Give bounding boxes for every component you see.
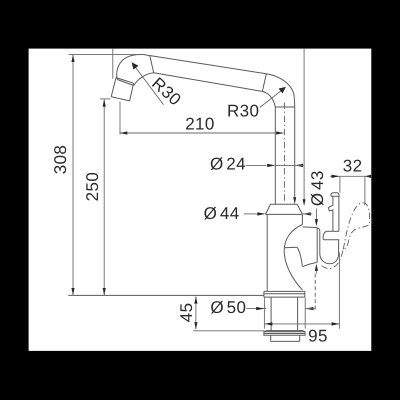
lever bracket top line [326,230,339,232]
right bend tangent tick left [262,74,266,92]
svg-text:Ø 50: Ø 50 [210,298,246,317]
diameter 43 dimension line lower [315,271,317,274]
right bend tangent tick bottom [275,106,294,108]
threaded shank walls [271,297,298,331]
svg-text:45: 45 [177,303,196,323]
body boss silhouette curve [284,225,302,290]
right bend outer arc R30 [266,74,294,107]
diameter 50 arrow left [256,307,264,310]
diameter 24 arrow right [295,164,303,167]
diameter 24 line across pipe [275,164,294,166]
dimension 308 arrow bottom [71,288,74,295]
lever bracket left bulge [323,231,326,239]
content panel [29,49,372,351]
radius R30 left leader [134,65,164,104]
side outlet face [319,231,321,252]
lever rod right edge [338,196,340,231]
spout top tube upper line [143,55,266,74]
counter deck line [68,294,264,296]
svg-text:Ø 43: Ø 43 [308,170,327,206]
lever cap [331,193,339,196]
riser pipe centerline (dash-dot) [283,103,285,202]
diameter 43 arrow up [315,264,318,271]
diameter 50 arrow right [305,307,313,310]
dimension 32 extension left [339,176,341,192]
dimension 32 extension right [364,176,366,205]
diameter 50 leader [246,308,266,310]
dimension 45 line [195,296,197,329]
riser pipe right wall end arrow [293,197,296,204]
dimension 45 extension bottom [193,330,264,332]
svg-text:308: 308 [51,145,70,175]
diameter 50 extension left [263,298,265,329]
body collar [265,204,302,214]
diameter 24 leader [246,164,267,166]
dimension 95 extension right [338,253,340,329]
dimension 32 arrow left [332,175,340,178]
diameter 43 arrow down [315,219,318,226]
dimension 45 arrow top [194,296,197,303]
diameter 44 leader [244,213,257,215]
lever alternate position outline (dash-dot) [343,203,369,249]
spout outlet axis extension line (cut at top) [112,49,114,79]
radius R30 left arrowhead [132,62,139,69]
svg-text:R30: R30 [227,101,259,120]
side outlet face inner line [316,228,318,262]
dimension 95 line [265,323,340,325]
deck mounting flange [264,291,305,297]
diameter 44 arrow left [257,212,265,215]
dimension 250 arrow bottom [103,288,106,295]
dimension 250 extension line top [100,98,111,100]
svg-text:32: 32 [343,156,363,175]
dimension 308 arrow top [71,55,74,62]
spout outlet tube [111,78,133,101]
dimension 32 line [330,175,371,177]
dimension 210 extension line left [119,102,121,135]
body right wall upper [301,214,303,224]
cut extension line end arrow [303,199,306,206]
diameter 24 tail right [295,164,305,166]
diameter 50 tail right [305,308,315,310]
diameter 43 dashed extension down [314,274,316,310]
svg-text:Ø 44: Ø 44 [204,204,240,223]
svg-text:95: 95 [308,327,328,346]
dimension 250 line [103,99,105,295]
spout top tube lower line [154,73,263,92]
tailpiece [271,335,300,341]
lever bracket bottom line [323,239,339,241]
dimension 210 arrow left [120,131,127,134]
boss fillet curve [297,247,302,266]
left bend inner arc [134,73,154,86]
side outlet cup bottom [320,240,339,264]
dimension 210 line [120,132,284,134]
right bend inner arc [262,91,275,107]
boss silhouette tick [284,246,297,249]
radius R30 right arrowhead [279,87,286,94]
dimension 250 arrow top [103,99,106,106]
svg-text:Ø 24: Ø 24 [210,155,246,174]
side outlet bottom edge [303,262,317,267]
radius R30 right leader [260,89,284,108]
diameter 44 arrow right [303,212,311,215]
diameter 50 extension right [304,298,306,329]
left bend tangent tick lower [117,80,133,86]
dimension 308 line [72,55,74,296]
dimension 45 arrow bottom [194,322,197,329]
diameter 44 tail right [303,213,313,215]
dimension 210 arrow right [276,131,283,134]
body left wall [266,214,268,291]
svg-text:250: 250 [83,172,102,202]
left bend tangent tick upper [150,56,154,73]
dimension 95 arrow left [265,322,273,325]
lever rod left edge with tab [328,196,333,231]
left bend outer arc R30 [117,54,143,79]
dimension 95 arrow right [332,322,340,325]
riser pipe left wall [274,107,276,204]
side outlet top edge [303,227,320,231]
lever swing arc under nut (dash-dot) [322,249,344,268]
cut extension line at x=304 [303,49,305,200]
dimension 308 extension line top [69,53,136,55]
riser pipe right wall [294,107,296,198]
diameter 43 dimension line upper [315,209,317,220]
bottom flange [264,331,305,336]
diameter 24 arrow left [267,164,275,167]
dimension 32 arrow right [365,175,371,178]
svg-text:210: 210 [185,114,215,133]
